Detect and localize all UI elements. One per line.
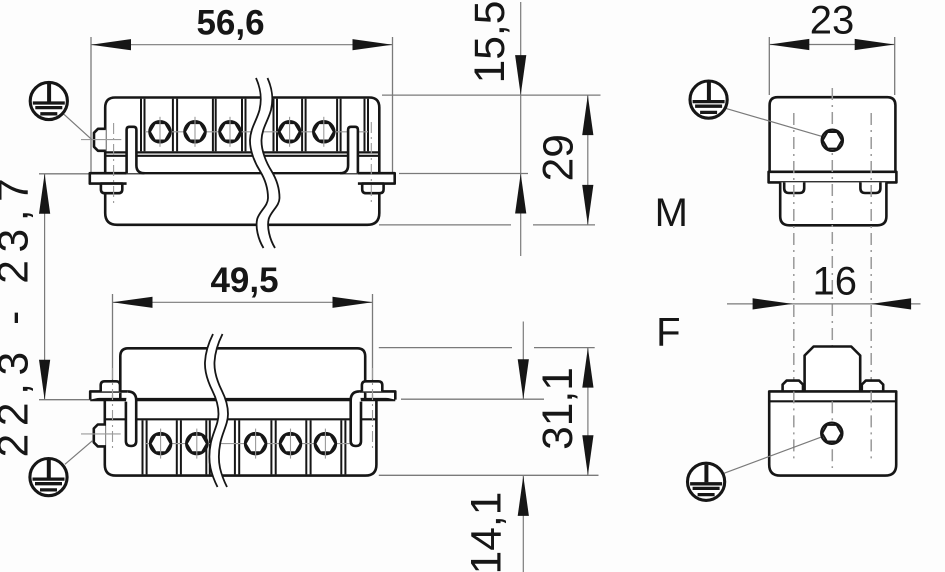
dimension 14,1 line bbox=[518, 322, 529, 572]
centre line right bbox=[870, 113, 872, 462]
extension line left of dim 56,6 bbox=[90, 37, 92, 174]
female screw centre line bbox=[145, 443, 350, 445]
F view left tab bbox=[783, 381, 803, 392]
F view earth symbol bbox=[688, 463, 725, 500]
svg-text:22,3 - 23,7: 22,3 - 23,7 bbox=[0, 171, 38, 458]
svg-text:49,5: 49,5 bbox=[210, 261, 278, 300]
female left screw centre line bbox=[112, 368, 114, 452]
dimension 14,1 text bbox=[464, 492, 511, 572]
F view guide boss bbox=[805, 347, 861, 392]
extension line right of dim 56,6 bbox=[392, 37, 394, 174]
male screw centre line bbox=[145, 131, 368, 133]
extension line male bottom edge bbox=[379, 224, 595, 226]
extension line 22,3-23,7 top bbox=[39, 173, 90, 175]
male left screw centre line bbox=[113, 123, 115, 206]
female break wave band bbox=[205, 334, 228, 487]
female right fixing screw head bbox=[362, 381, 382, 391]
male PE terminal tab bbox=[94, 129, 106, 151]
M view right lug bbox=[860, 182, 880, 193]
svg-text:M: M bbox=[655, 191, 688, 235]
female terminal screw 3 bbox=[245, 429, 266, 459]
extension line male top edge bbox=[382, 94, 601, 96]
male terminal row bottom line 1 bbox=[105, 151, 379, 153]
dimension 23 extension right bbox=[894, 37, 896, 95]
F view right tab bbox=[862, 381, 883, 392]
dimension 29 line bbox=[582, 95, 593, 225]
female PE tab centre line bbox=[81, 433, 121, 435]
dimension 23 line bbox=[769, 39, 894, 50]
female flange line bbox=[90, 398, 395, 401]
male right clamp foot bbox=[358, 173, 395, 183]
dimension 22,3-23,7 text bbox=[0, 171, 38, 458]
male terminal screw 3 bbox=[219, 117, 240, 147]
dimension 31,1 text bbox=[535, 367, 582, 450]
extension line female mounting face bbox=[401, 398, 544, 400]
male earth leader line bbox=[62, 112, 92, 139]
svg-text:15,5: 15,5 bbox=[467, 1, 514, 84]
male insert body outline bbox=[105, 98, 379, 225]
dimension 56,6 text bbox=[196, 3, 264, 42]
dimension 23 extension left bbox=[768, 37, 770, 95]
svg-text:31,1: 31,1 bbox=[535, 367, 582, 450]
dimension 15,5 line bbox=[515, 2, 526, 256]
extension line male mounting face bbox=[399, 173, 528, 175]
dimension 49,5 line bbox=[113, 297, 373, 308]
male PE tab centre line bbox=[81, 139, 121, 141]
extension line left of dim 49,5 bbox=[112, 294, 114, 452]
F view centre line middle bbox=[831, 401, 833, 468]
male left clamp foot bbox=[90, 173, 127, 183]
F view PE screw hole bbox=[821, 423, 842, 444]
label F bbox=[656, 311, 680, 355]
dimension 49,5 text bbox=[210, 261, 278, 300]
female mating face bbox=[120, 348, 365, 399]
F view centre line left bbox=[793, 391, 795, 462]
female right clamp foot bbox=[360, 391, 396, 399]
female terminal screw 4 bbox=[280, 429, 301, 459]
svg-text:14,1: 14,1 bbox=[464, 492, 511, 572]
extension line 22,3-23,7 bottom bbox=[39, 399, 90, 401]
M view earth symbol bbox=[690, 81, 727, 118]
female terminal screw 5 bbox=[315, 429, 336, 459]
M view flange band bbox=[769, 172, 897, 183]
F view band line bbox=[769, 400, 896, 402]
female right screw centre line bbox=[372, 368, 374, 452]
male terminal screw 5 bbox=[313, 117, 334, 147]
female insert body outline bbox=[105, 400, 377, 476]
female right clamp bracket bbox=[351, 391, 361, 446]
svg-text:16: 16 bbox=[813, 260, 858, 304]
dimension 16 text bbox=[813, 260, 858, 304]
male terminal cell walls bbox=[141, 99, 368, 152]
female PE terminal tab bbox=[94, 425, 106, 447]
extension line right of dim 49,5 bbox=[372, 294, 374, 452]
M view earth leader line bbox=[724, 108, 826, 138]
svg-text:F: F bbox=[656, 311, 680, 355]
M view PE screw hole bbox=[822, 130, 843, 151]
male right fixing screw head bbox=[362, 184, 383, 194]
male mounting flange line bbox=[91, 172, 395, 174]
svg-text:23: 23 bbox=[810, 0, 855, 43]
dimension 31,1 line bbox=[582, 348, 593, 476]
label M bbox=[655, 191, 688, 235]
M view housing body bbox=[770, 97, 896, 172]
male right clamp bracket bbox=[340, 127, 358, 173]
svg-text:29: 29 bbox=[536, 134, 583, 181]
male terminal screw 1 bbox=[149, 117, 170, 147]
F view centre line right bbox=[870, 391, 872, 462]
female left clamp bracket bbox=[126, 391, 136, 446]
male terminal screw 4 bbox=[279, 117, 300, 147]
M view left lug bbox=[784, 182, 804, 193]
male left clamp bracket bbox=[127, 127, 145, 173]
dimension 15,5 text bbox=[467, 1, 514, 84]
male terminal row bottom line 2 bbox=[105, 155, 379, 157]
centre line middle bbox=[831, 88, 833, 468]
dimension 29 text bbox=[536, 134, 583, 181]
male terminal screw 2 bbox=[184, 117, 205, 147]
female left clamp foot bbox=[90, 391, 127, 399]
male right screw centre line bbox=[370, 122, 372, 206]
female terminal screw 1 bbox=[150, 429, 171, 459]
F view housing body bbox=[769, 391, 896, 475]
centre line left bbox=[793, 113, 795, 462]
extension line female bottom edge bbox=[379, 474, 599, 476]
male earth symbol bbox=[30, 82, 67, 119]
female earth leader line bbox=[65, 440, 93, 464]
female terminal screw 2 bbox=[186, 429, 207, 459]
M view lower collar bbox=[780, 182, 886, 225]
F view earth leader line bbox=[721, 436, 825, 475]
female terminal cell walls bbox=[143, 420, 346, 474]
dimension 23 text bbox=[810, 0, 855, 43]
female terminal row top line bbox=[105, 418, 377, 420]
extension line female top edge bbox=[379, 347, 595, 349]
dimension 22,3-23,7 line bbox=[39, 174, 50, 400]
female earth symbol bbox=[30, 459, 67, 496]
male left fixing screw head bbox=[101, 184, 122, 194]
dimension 56,6 line bbox=[91, 39, 393, 50]
male break wave band bbox=[250, 78, 280, 248]
dimension 16 line bbox=[727, 298, 921, 309]
svg-text:56,6: 56,6 bbox=[196, 3, 264, 42]
female left fixing screw head bbox=[101, 381, 120, 391]
